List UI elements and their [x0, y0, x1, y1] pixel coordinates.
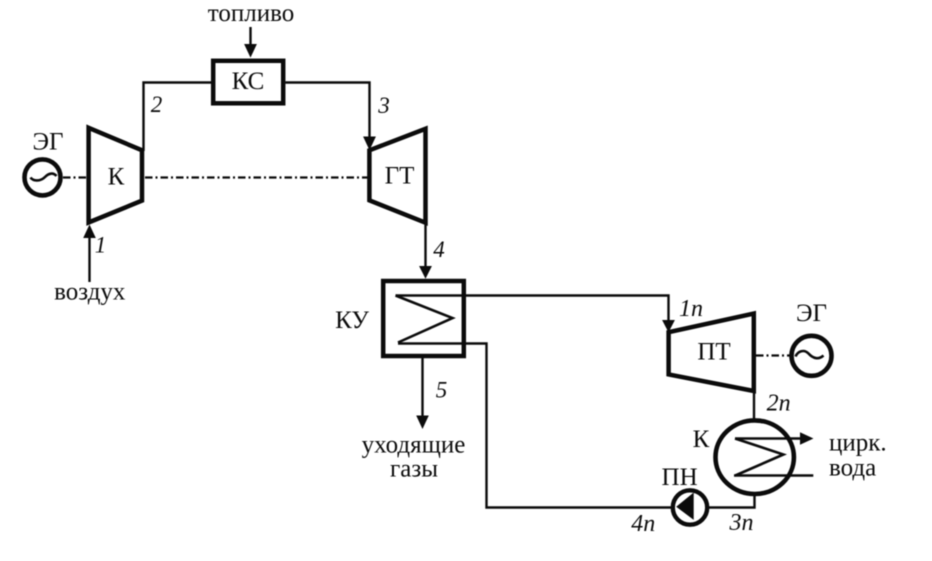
svg-text:газы: газы [390, 456, 438, 483]
svg-text:топливо: топливо [208, 0, 294, 27]
wire steam line 1p : boiler to steam turbine [396, 296, 669, 321]
boiler heating-coil zigzag [396, 296, 453, 343]
steam turbine PT trapezoid [669, 314, 754, 391]
svg-text:КУ: КУ [335, 307, 369, 334]
pump impeller triangle [676, 493, 694, 520]
condenser coil zigzag [735, 437, 801, 440]
svg-text:КС: КС [232, 68, 265, 95]
svg-text:3: 3 [377, 93, 390, 118]
svg-text:ПН: ПН [662, 464, 698, 491]
svg-text:уходящие: уходящие [362, 432, 466, 459]
condenser K circle [716, 420, 794, 494]
svg-text:вода: вода [829, 455, 876, 482]
generator EG (right) [792, 336, 832, 376]
svg-text:ПТ: ПТ [697, 339, 730, 366]
svg-text:2: 2 [151, 92, 163, 117]
svg-text:воздух: воздух [54, 279, 126, 306]
svg-text:ЭГ: ЭГ [33, 129, 64, 156]
feed pump PN circle [673, 490, 707, 524]
wire feedwater line : boiler coil out, down and right to pump [398, 344, 672, 508]
svg-text:ГТ: ГТ [385, 163, 415, 190]
wire node 4 : GT to boiler [424, 223, 426, 266]
wire node 2п : PT down to condenser [753, 391, 755, 420]
wire node 3п : condenser bottom to pump [709, 495, 755, 508]
shaft dash-dot: compressor to gas turbine [145, 176, 368, 178]
svg-text:цирк.: цирк. [829, 430, 887, 457]
wire node 1 : air inlet arrow [88, 238, 90, 282]
svg-text:ЭГ: ЭГ [796, 300, 827, 327]
wire node 2 : KC left to compressor top [144, 83, 212, 152]
gas turbine GT trapezoid [369, 129, 425, 223]
wire fuel arrow into KC [249, 27, 251, 46]
generator EG (left) [25, 159, 61, 195]
combustion chamber KC box [213, 61, 283, 104]
svg-text:4п: 4п [631, 511, 655, 537]
svg-text:1: 1 [95, 233, 107, 258]
svg-text:2п: 2п [767, 391, 791, 417]
wire node 5 : exhaust out of boiler [421, 356, 423, 416]
svg-text:1п: 1п [679, 296, 703, 322]
svg-text:4: 4 [433, 237, 445, 262]
wire node 3 : KC right to gas turbine [286, 83, 370, 139]
compressor K trapezoid [89, 128, 142, 223]
waste-heat boiler KU box [383, 281, 464, 356]
shaft dash-dot: PT to generator [756, 354, 790, 356]
svg-text:5: 5 [436, 378, 448, 403]
svg-text:3п: 3п [729, 510, 754, 536]
svg-text:К: К [108, 164, 125, 191]
shaft dash-dot: generator to compressor [63, 176, 86, 178]
svg-text:К: К [693, 426, 710, 453]
